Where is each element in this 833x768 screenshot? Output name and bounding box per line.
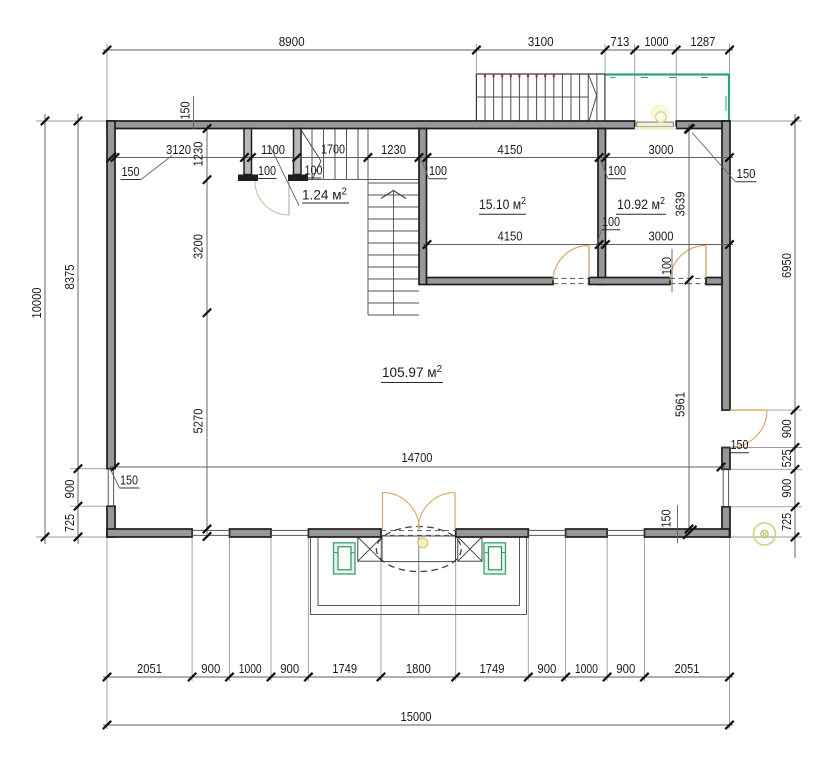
french doors bottom	[382, 493, 384, 530]
window right wall	[722, 469, 724, 507]
green deck/terrace outline	[606, 75, 730, 122]
closet door	[288, 181, 290, 215]
svg-text:2051: 2051	[137, 662, 162, 676]
X-box right	[458, 537, 482, 561]
X-box left	[358, 537, 382, 561]
left wall lower	[107, 506, 115, 537]
callout 100 wall C rotated	[671, 249, 673, 292]
svg-text:725: 725	[780, 513, 794, 531]
svg-text:5270: 5270	[192, 408, 206, 433]
entrance door (top, closed with yellow marker)	[650, 105, 669, 122]
door room 10.92	[705, 246, 707, 278]
door threshold rectangle	[382, 536, 456, 562]
svg-text:150: 150	[120, 474, 138, 488]
dimension row rooms bottom	[423, 244, 733, 246]
callout 150 top-left vertical	[193, 96, 195, 129]
left wall upper	[107, 121, 115, 469]
survey marker symbol	[754, 523, 776, 545]
svg-text:3000: 3000	[649, 143, 674, 157]
svg-text:525: 525	[780, 449, 794, 467]
svg-text:150: 150	[660, 509, 674, 527]
svg-text:713: 713	[610, 35, 629, 49]
svg-text:100: 100	[608, 164, 626, 178]
svg-text:900: 900	[780, 479, 794, 498]
svg-text:100: 100	[305, 164, 323, 178]
svg-text:10000: 10000	[30, 287, 44, 318]
svg-text:150: 150	[737, 167, 756, 181]
svg-text:3100: 3100	[528, 35, 554, 49]
svg-text:100: 100	[258, 164, 276, 178]
svg-text:4150: 4150	[498, 230, 523, 244]
svg-text:1749: 1749	[480, 662, 505, 676]
svg-text:1800: 1800	[406, 662, 431, 676]
svg-text:150: 150	[179, 101, 193, 119]
svg-text:1749: 1749	[332, 662, 357, 676]
svg-text:105.97 м2: 105.97 м2	[382, 364, 442, 380]
red tread marks	[484, 75, 486, 78]
svg-text:3639: 3639	[674, 191, 688, 216]
interior wall below rooms segments	[427, 278, 554, 285]
svg-text:6950: 6950	[780, 253, 794, 278]
svg-text:1000: 1000	[645, 35, 669, 49]
door room 15.10	[588, 246, 590, 278]
svg-text:1287: 1287	[690, 35, 715, 49]
svg-text:5961: 5961	[674, 392, 688, 417]
svg-text:900: 900	[537, 662, 556, 676]
svg-text:1000: 1000	[575, 662, 598, 676]
svg-text:14700: 14700	[402, 451, 433, 465]
porch steps outline	[311, 538, 527, 615]
left dimension column 10000	[44, 114, 46, 544]
svg-text:1230: 1230	[381, 143, 406, 157]
bottom wall segments	[107, 529, 192, 537]
interior vertical dims right (3639/5961)	[688, 124, 690, 533]
svg-text:100: 100	[429, 164, 447, 178]
svg-text:900: 900	[616, 662, 635, 676]
svg-text:900: 900	[201, 662, 220, 676]
stair break line	[588, 74, 597, 121]
svg-text:15.10 м2: 15.10 м2	[479, 196, 526, 212]
svg-text:4150: 4150	[498, 143, 523, 157]
dimension row 1	[103, 49, 733, 51]
svg-text:8375: 8375	[63, 264, 77, 289]
up arrow	[381, 191, 406, 199]
svg-text:900: 900	[63, 479, 77, 498]
top wall right segment	[676, 121, 729, 129]
right wall mid	[722, 448, 730, 470]
dimension 15000	[103, 724, 733, 726]
dimension bottom row	[103, 676, 733, 678]
svg-text:1.24 м2: 1.24 м2	[302, 187, 347, 203]
dimension 14700	[110, 466, 725, 468]
svg-text:100: 100	[660, 257, 674, 275]
external entrance stair	[476, 73, 605, 75]
svg-text:150: 150	[731, 438, 749, 452]
dimension row 2	[111, 157, 733, 159]
svg-text:3000: 3000	[649, 230, 674, 244]
right wall upper	[722, 121, 730, 410]
label 1.24 m2	[270, 146, 299, 206]
door right wall	[730, 409, 767, 411]
svg-text:1230: 1230	[192, 141, 206, 166]
window left wall	[107, 469, 109, 507]
left dimension column 8375	[77, 114, 79, 544]
svg-text:900: 900	[280, 662, 299, 676]
svg-text:1700: 1700	[321, 143, 345, 157]
internal stair upper run	[311, 129, 313, 180]
stair break line	[301, 130, 321, 180]
closet stub wall 2	[294, 129, 302, 175]
door centre line	[418, 537, 420, 615]
svg-text:8900: 8900	[279, 35, 305, 49]
svg-text:100: 100	[602, 215, 620, 229]
right dimension column	[794, 114, 796, 558]
stair mid landing line	[476, 96, 588, 98]
svg-text:3200: 3200	[192, 234, 206, 259]
svg-text:1000: 1000	[239, 662, 262, 676]
svg-text:3120: 3120	[166, 143, 191, 157]
interior wall between rooms	[598, 129, 606, 285]
svg-text:150: 150	[122, 165, 140, 179]
svg-text:1100: 1100	[261, 143, 285, 157]
svg-text:2051: 2051	[675, 662, 700, 676]
internal stair lower run	[368, 182, 419, 184]
svg-text:900: 900	[780, 419, 794, 438]
swing clearance dashed ellipse	[376, 527, 461, 572]
svg-text:15000: 15000	[401, 710, 432, 724]
svg-text:10.92 м2: 10.92 м2	[617, 196, 665, 212]
planter right	[484, 543, 506, 574]
svg-text:725: 725	[63, 514, 77, 532]
interior vertical dims left (1230/3200/5270)	[206, 124, 208, 534]
interior wall stair/room	[419, 129, 427, 285]
bottom windows	[192, 529, 229, 531]
right wall lower	[722, 507, 730, 537]
closet stub wall 1	[244, 129, 252, 175]
dashed opening lines rooms	[553, 277, 589, 279]
top wall left segment	[107, 121, 635, 129]
callout 150 bottom	[677, 505, 679, 543]
planter left	[334, 543, 356, 574]
